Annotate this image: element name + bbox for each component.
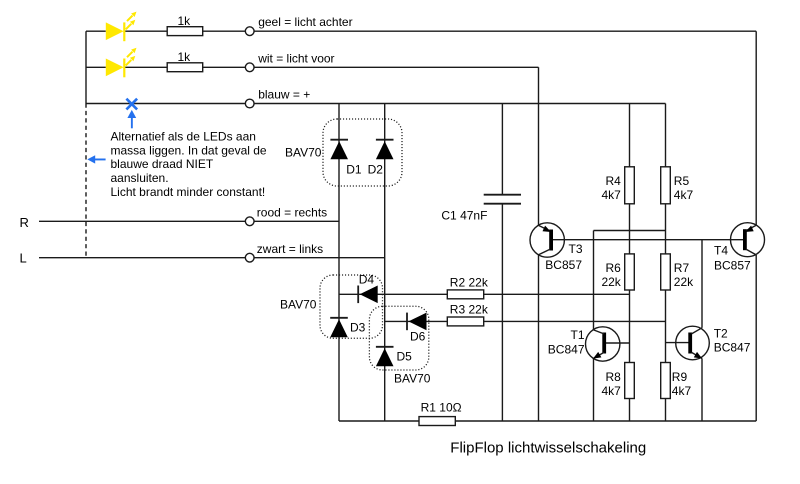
svg-text:R9: R9: [672, 370, 688, 384]
svg-text:D2: D2: [368, 163, 384, 177]
wire zwart terminal to D2 line: [254, 257, 385, 259]
wire LED2 cathode to R 1k: [125, 66, 168, 68]
resistor R8 4k7: [625, 363, 635, 399]
svg-text:R1 10Ω: R1 10Ω: [421, 400, 462, 414]
svg-text:R2 22k: R2 22k: [450, 276, 489, 290]
wire R8 to rail: [629, 399, 631, 422]
svg-text:blauw = +: blauw = +: [258, 88, 310, 102]
wire D1 vertical: [338, 104, 340, 422]
svg-text:aansluiten.: aansluiten.: [111, 171, 169, 185]
wire LED1 cathode to R 1k: [125, 30, 168, 32]
svg-text:R5: R5: [674, 174, 690, 188]
wire T1 collector vertical: [593, 231, 595, 330]
svg-text:BAV70: BAV70: [285, 146, 322, 160]
svg-text:D6: D6: [410, 330, 426, 344]
resistor 1k (geel row): [167, 27, 203, 36]
svg-text:1k: 1k: [178, 14, 192, 28]
wire cross link T1 collector to R5 vertical: [594, 230, 666, 232]
svg-text:1k: 1k: [178, 50, 192, 64]
resistor R3 22k: [447, 317, 483, 326]
blue X (blauw not connected mark): [126, 99, 137, 110]
svg-text:D4: D4: [359, 273, 375, 287]
wire R9 to rail: [665, 399, 667, 422]
resistor R7 22k: [661, 254, 671, 290]
wire R4 chain vertical top: [629, 104, 631, 167]
resistor R2 22k: [447, 290, 483, 299]
svg-text:T2: T2: [714, 327, 728, 341]
wire R5 chain vertical top: [665, 104, 667, 167]
svg-text:rood = rechts: rood = rechts: [257, 205, 327, 219]
wire base line T3 to T4: [553, 239, 744, 241]
diode D6: [407, 313, 427, 331]
svg-text:4k7: 4k7: [674, 188, 694, 202]
wire blauw rail from terminal to R5 corner: [254, 103, 665, 105]
wire R input row: [39, 220, 245, 222]
wire T4 bottom to rail: [755, 255, 757, 421]
wire terminal geel to right corner: [254, 30, 756, 32]
svg-text:T3: T3: [569, 242, 583, 256]
svg-text:R6: R6: [605, 261, 621, 275]
wire R6 to R8: [629, 290, 631, 363]
svg-text:4k7: 4k7: [601, 188, 621, 202]
wire rood terminal to D1 line: [254, 220, 339, 222]
resistor R4 4k7: [625, 167, 635, 204]
wire T3 bottom to ground rail: [538, 255, 540, 421]
diode D4: [358, 286, 378, 304]
wire D2 vertical: [384, 104, 386, 422]
LED D-wit (yellow LED row 2): [106, 48, 137, 78]
dotted package outline BAV70 D5 D6: [369, 306, 428, 370]
wire D4 row: D1 line to R2: [339, 293, 447, 295]
svg-text:blauwe draad NIET: blauwe draad NIET: [111, 157, 214, 171]
terminal rood: [245, 217, 254, 226]
svg-text:R4: R4: [605, 174, 621, 188]
wire T1 emitter vertical: [593, 358, 595, 421]
svg-text:D3: D3: [350, 321, 366, 335]
resistor R9 4k7: [661, 363, 671, 399]
svg-text:C1 47nF: C1 47nF: [441, 209, 487, 223]
LED D-geel (yellow LED row 1): [106, 12, 137, 42]
wire R7 to R9: [665, 290, 667, 363]
svg-text:Alternatief als de LEDs aan: Alternatief als de LEDs aan: [111, 129, 256, 143]
svg-text:4k7: 4k7: [672, 384, 692, 398]
wire T2 emitter vertical: [701, 358, 703, 421]
wire wit row from left bus to LED2: [86, 66, 106, 68]
terminal zwart: [245, 253, 254, 262]
svg-text:R: R: [20, 215, 29, 230]
blue arrow left (points at dashed bus): [87, 155, 105, 163]
resistor R6 22k: [625, 254, 635, 290]
svg-text:BC857: BC857: [545, 258, 582, 272]
svg-text:22k: 22k: [674, 275, 694, 289]
svg-text:massa liggen. In dat geval de: massa liggen. In dat geval de: [111, 143, 267, 157]
svg-text:zwart = links: zwart = links: [257, 242, 323, 256]
wire T2 base from R9 vertical: [666, 342, 689, 344]
resistor R1 10ohm: [419, 417, 455, 426]
transistor T3 BC857 (PNP): [530, 223, 564, 257]
diode D2: [376, 140, 394, 160]
wire 1k to terminal geel: [203, 30, 246, 32]
terminal blauw: [245, 99, 254, 108]
capacitor C1 plates: [484, 194, 521, 196]
svg-text:4k7: 4k7: [601, 384, 621, 398]
wire R3 to R7 vertical: [484, 320, 666, 322]
svg-text:T1: T1: [570, 328, 584, 342]
wire R2 to R6 vertical: [484, 293, 630, 295]
wire R4 to R6: [629, 204, 631, 254]
svg-text:BC847: BC847: [714, 341, 751, 355]
wire wit drop to T3 top: [538, 67, 540, 225]
wire 1k to terminal wit: [203, 66, 246, 68]
wire terminal wit to T3 drop: [254, 66, 538, 68]
svg-text:D5: D5: [397, 350, 413, 364]
resistor 1k (wit row): [167, 63, 203, 72]
wire D6 row: D2 line to R3: [385, 320, 448, 322]
terminal wit: [245, 63, 254, 72]
svg-text:BC847: BC847: [548, 343, 585, 357]
wire T2 collector vertical: [701, 240, 703, 328]
wire ground rail bottom: [339, 420, 756, 422]
svg-text:geel = licht achter: geel = licht achter: [258, 15, 352, 29]
transistor T4 BC857 (PNP, mirrored): [731, 223, 765, 257]
wire geel drop to T4 top: [755, 31, 757, 225]
diode D5: [376, 347, 394, 367]
svg-text:R7: R7: [674, 261, 690, 275]
wire C1 top vertical: [501, 104, 503, 195]
svg-text:BC857: BC857: [714, 259, 751, 273]
svg-text:D1: D1: [346, 163, 362, 177]
wire left vertical bus: [85, 31, 87, 103]
wire dashed alternative bus: [85, 104, 87, 258]
diode D3: [330, 318, 348, 338]
wire L input row: [39, 257, 245, 259]
wire blauw row left: [86, 103, 245, 105]
transistor T1 BC847 (NPN): [586, 327, 620, 361]
blue arrow up (points at X): [127, 110, 136, 128]
diode D1: [330, 140, 348, 160]
dotted package outline BAV70 D1 D2: [323, 119, 402, 186]
wire R5 to R7: [665, 204, 667, 254]
svg-text:T4: T4: [714, 244, 728, 258]
wire T1 base to R8 vertical: [606, 342, 630, 344]
wire C1 bottom vertical: [501, 204, 503, 421]
terminal geel: [245, 27, 254, 36]
svg-text:R3 22k: R3 22k: [450, 303, 489, 317]
svg-text:L: L: [20, 251, 27, 266]
svg-text:wit = licht voor: wit = licht voor: [257, 51, 334, 65]
svg-text:BAV70: BAV70: [280, 298, 317, 312]
dotted package outline BAV70 D3 D4: [320, 275, 383, 338]
svg-text:R8: R8: [605, 370, 621, 384]
svg-text:Licht brandt minder constant!: Licht brandt minder constant!: [111, 185, 266, 199]
svg-text:FlipFlop lichtwisselschakeling: FlipFlop lichtwisselschakeling: [450, 440, 646, 457]
svg-text:22k: 22k: [601, 275, 621, 289]
svg-text:BAV70: BAV70: [394, 372, 431, 386]
resistor R5 4k7: [661, 167, 671, 204]
transistor T2 BC847 (NPN, mirrored): [676, 326, 710, 360]
wire geel row from left bus to LED1: [86, 30, 106, 32]
